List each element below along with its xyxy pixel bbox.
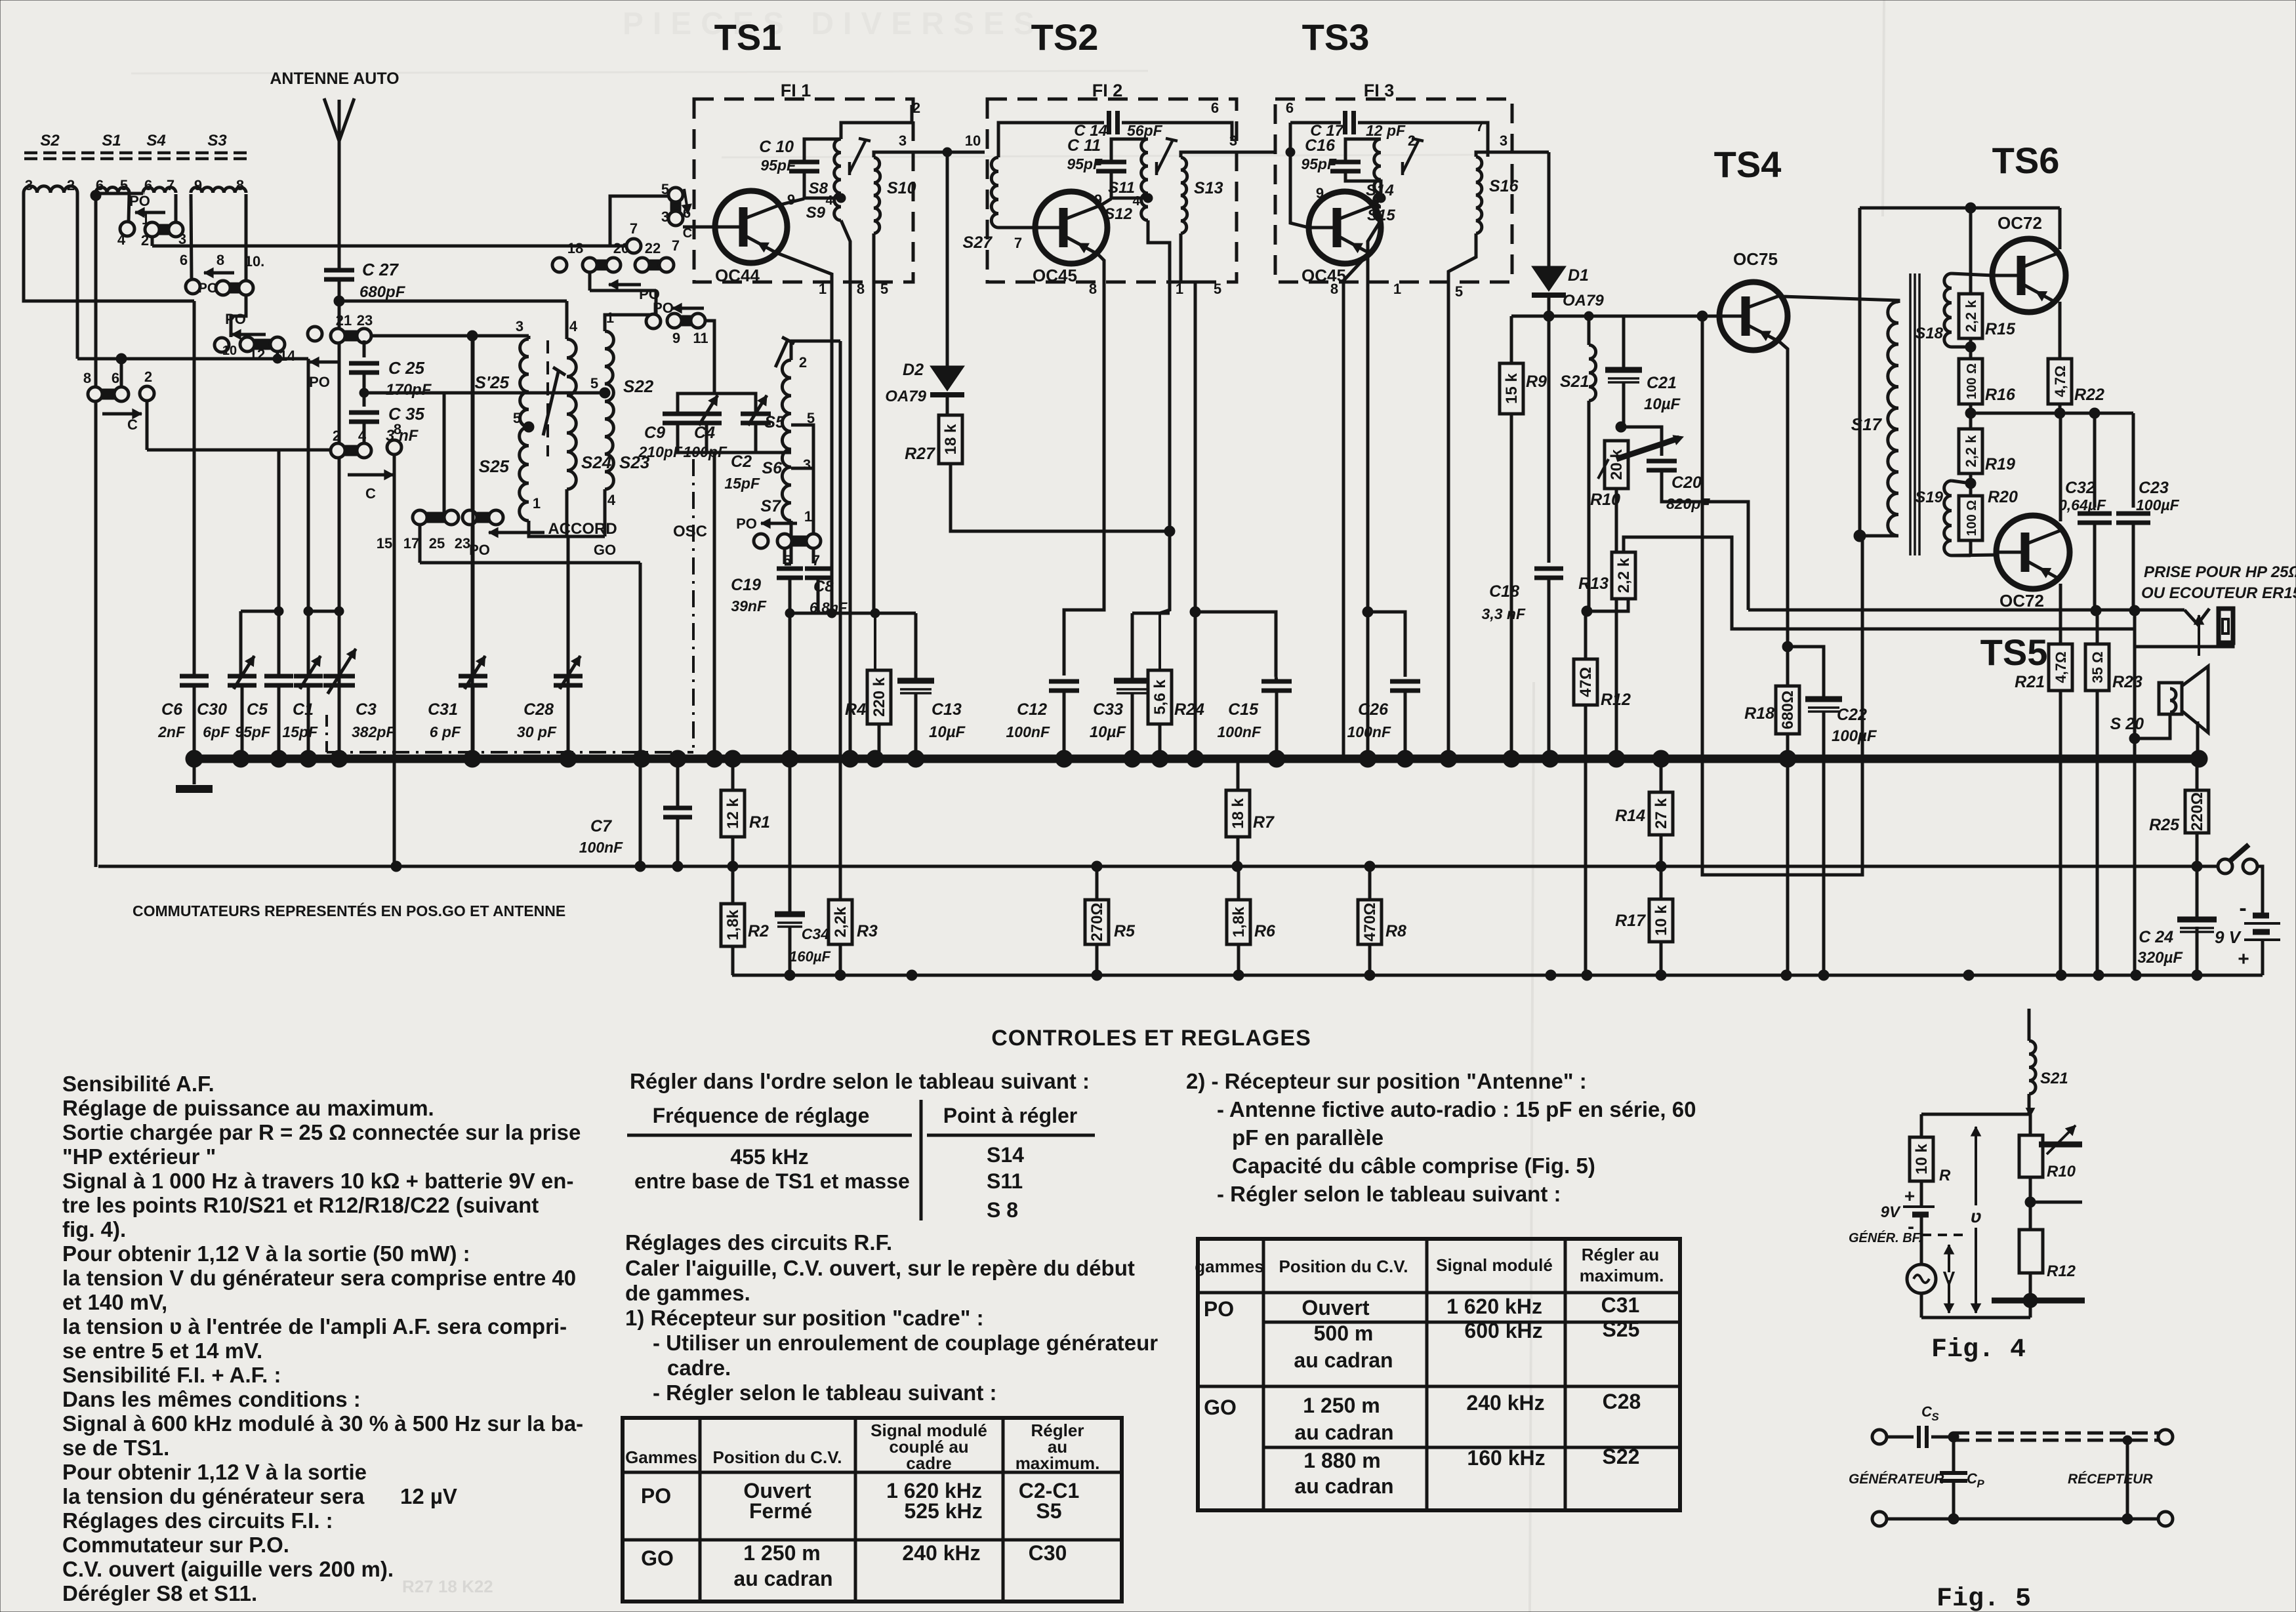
svg-text:R6: R6 — [1254, 922, 1276, 940]
wire S22 tap left — [444, 392, 605, 395]
pin 25 — [429, 535, 445, 552]
wire antenna to C27 node — [338, 280, 341, 301]
junction on ground bus — [232, 750, 249, 767]
svg-text:9: 9 — [194, 177, 202, 193]
label S21 fig4 — [2040, 1070, 2068, 1087]
wire pin8c down — [393, 454, 396, 866]
label COMMUTATEURS — [133, 902, 565, 919]
pin 14 — [279, 348, 296, 364]
label S27 — [963, 233, 993, 252]
label R10 fig4 — [2047, 1163, 2076, 1180]
wire C13 down — [914, 693, 918, 759]
pin 9 — [672, 330, 680, 346]
svg-text:Fréquence de réglage: Fréquence de réglage — [653, 1104, 870, 1127]
label 9V fig4 — [1881, 1203, 1901, 1221]
svg-text:TS5: TS5 — [1980, 632, 2048, 673]
svg-text:C15: C15 — [1228, 700, 1259, 719]
pin 6b — [112, 370, 119, 386]
svg-text:GÉNÉRATEUR: GÉNÉRATEUR — [1849, 1472, 1944, 1487]
label 9V — [2215, 927, 2242, 947]
svg-text:S22: S22 — [1603, 1445, 1640, 1468]
svg-text:C3: C3 — [356, 700, 377, 719]
svg-text:4: 4 — [569, 318, 578, 334]
svg-text:C16: C16 — [1305, 136, 1336, 155]
coil S8 S9 — [834, 139, 841, 220]
svg-text:Réglages des circuits R.F.: Réglages des circuits R.F. — [625, 1230, 892, 1255]
label TS4 — [1714, 144, 1782, 185]
resistor R21 — [2015, 644, 2072, 691]
node C32 top — [2089, 408, 2100, 418]
junction on ground bus — [1608, 750, 1625, 767]
junction on ground bus — [706, 750, 723, 767]
junction on bottom rail — [1818, 970, 1829, 980]
svg-text:Signal à 600 kHz modulé à 30 %: Signal à 600 kHz modulé à 30 % à 500 Hz … — [62, 1411, 583, 1436]
wire osc top link — [678, 393, 756, 414]
svg-text:ʋ: ʋ — [1971, 1206, 1982, 1226]
coil S2 — [24, 186, 77, 193]
label S2 — [40, 132, 60, 150]
wire switch1-3 down — [151, 237, 154, 246]
coil S3 — [191, 188, 246, 193]
pin 2 — [67, 177, 75, 193]
svg-text:OC45: OC45 — [1033, 266, 1077, 285]
junction on ground bus — [724, 750, 741, 767]
svg-text:9 V: 9 V — [2215, 927, 2242, 947]
svg-text:4: 4 — [1132, 194, 1140, 209]
node S1 S4 link — [91, 190, 143, 201]
svg-text:R12: R12 — [2047, 1262, 2076, 1280]
wire R10 node right — [1621, 427, 1662, 456]
svg-text:PO: PO — [736, 515, 757, 532]
node fig5 top — [1948, 1432, 1959, 1442]
node S25 tap — [523, 422, 534, 432]
svg-text:S2: S2 — [40, 132, 60, 150]
label S24 — [581, 453, 612, 472]
label Fig 4 — [1931, 1335, 2026, 1365]
svg-text:170pF: 170pF — [386, 381, 432, 399]
svg-text:2: 2 — [912, 100, 920, 116]
junction on ground bus — [867, 750, 884, 767]
junction on ground bus — [669, 750, 686, 767]
svg-text:C 24: C 24 — [2139, 928, 2173, 946]
junction on ground bus — [2190, 750, 2207, 767]
wire R23 down — [2096, 691, 2099, 975]
svg-text:TS4: TS4 — [1714, 144, 1782, 185]
node pin1 FI1 net — [827, 609, 836, 618]
svg-text:S1: S1 — [102, 132, 121, 150]
wire fi3 in riser — [1289, 123, 1292, 152]
wire C34 down — [789, 927, 792, 975]
arrow PO osc — [736, 515, 797, 532]
svg-text:500 m: 500 m — [1314, 1321, 1374, 1345]
switch 8-6 — [88, 387, 129, 401]
pin 3 — [25, 177, 33, 193]
capacitor C12 — [1006, 681, 1079, 740]
svg-text:C4: C4 — [694, 424, 715, 442]
arrow PO top — [135, 208, 165, 218]
pin 2b — [333, 428, 340, 444]
label ANTENNE AUTO — [270, 70, 399, 88]
label S3 — [207, 132, 227, 150]
svg-text:C 25: C 25 — [388, 358, 424, 378]
wire R9 down — [1510, 414, 1513, 759]
node S20 link — [2129, 733, 2140, 744]
wire TS3 emitter down — [1343, 252, 1370, 759]
svg-text:1 250 m: 1 250 m — [743, 1541, 820, 1565]
label RECEPTEUR — [2068, 1472, 2153, 1487]
wire S27 base — [998, 226, 1035, 230]
svg-text:S19: S19 — [1915, 489, 1943, 506]
svg-text:R5: R5 — [1114, 922, 1136, 940]
svg-text:Fig. 4: Fig. 4 — [1931, 1335, 2026, 1365]
svg-text:S5: S5 — [1036, 1499, 1061, 1523]
wire sw25 stub — [420, 525, 640, 563]
label S8 — [809, 180, 829, 197]
capacitor C3 variable — [323, 649, 396, 740]
wire C21 up — [1622, 316, 1626, 370]
svg-text:1: 1 — [819, 281, 827, 297]
svg-text:C31: C31 — [1601, 1293, 1640, 1317]
pin 9 fi3 — [1316, 185, 1324, 201]
svg-text:C23: C23 — [2139, 479, 2169, 497]
node fi3 in — [1286, 148, 1295, 157]
svg-text:8: 8 — [1330, 281, 1338, 297]
svg-text:Réglages des circuits F.I. :: Réglages des circuits F.I. : — [62, 1508, 333, 1533]
junction on ground bus — [633, 750, 650, 767]
label S12 — [1104, 205, 1132, 223]
wire C19 top — [789, 563, 792, 564]
svg-text:39nF: 39nF — [731, 597, 767, 615]
svg-text:8: 8 — [83, 370, 91, 386]
svg-text:P: P — [1977, 1478, 1984, 1490]
wire C15 link — [1195, 612, 1276, 677]
resistor R3 — [829, 900, 878, 944]
switch 1-3 — [145, 222, 183, 237]
wire S3 left leg — [191, 194, 192, 279]
junction on ground bus — [1440, 750, 1457, 767]
svg-text:3: 3 — [25, 177, 33, 193]
wire R2 up — [731, 866, 735, 904]
svg-text:5: 5 — [1214, 281, 1221, 297]
junction on bottom rail — [2192, 970, 2202, 980]
svg-text:5: 5 — [1455, 283, 1463, 300]
wire S22 top — [605, 291, 656, 331]
coil S'25 — [520, 339, 529, 427]
junction on ground bus — [1503, 750, 1520, 767]
pin 9 — [194, 177, 202, 193]
svg-text:270Ω: 270Ω — [1088, 902, 1106, 941]
svg-text:S4: S4 — [146, 132, 165, 150]
capacitor C34 pol — [775, 914, 831, 965]
label minus fig4 — [1908, 1216, 1914, 1238]
svg-text:CONTROLES ET REGLAGES: CONTROLES ET REGLAGES — [991, 1026, 1311, 1051]
arrow V fig4 — [1944, 1245, 1954, 1313]
pin 11 — [693, 330, 708, 346]
wire S12 bottom — [1148, 220, 1170, 613]
label OC72 bottom — [1999, 591, 2044, 611]
circle pin 10b — [215, 338, 237, 358]
transistor TS1 OC44 — [715, 191, 804, 263]
coil S18 — [1944, 273, 1952, 347]
wire fig4 top — [1921, 1094, 2035, 1116]
terminal fig5 right top — [2158, 1430, 2173, 1444]
resistor R27 — [905, 415, 962, 464]
svg-text:10 k: 10 k — [1913, 1143, 1931, 1174]
pin 5 osc — [807, 410, 815, 426]
svg-text:Régler au: Régler au — [1582, 1245, 1660, 1264]
junction on ground bus — [781, 750, 798, 767]
wire S18 top — [1952, 273, 1993, 275]
svg-text:4: 4 — [358, 428, 367, 444]
svg-text:C32: C32 — [2065, 479, 2095, 497]
junction on bottom rail — [1092, 970, 1102, 980]
label S6 — [762, 459, 783, 477]
pin 8 — [236, 177, 244, 193]
label TS3 — [1302, 16, 1370, 58]
label S7 — [760, 497, 781, 515]
wire C21 down — [1622, 382, 1626, 427]
svg-text:pF en parallèle: pF en parallèle — [1232, 1125, 1384, 1150]
resistor R8 — [1358, 900, 1406, 944]
pin 1 accord — [533, 495, 541, 512]
junction on bottom rail — [1364, 970, 1375, 980]
label FI2 — [1092, 81, 1123, 100]
svg-text:et 140 mV,: et 140 mV, — [62, 1290, 167, 1314]
svg-text:C34: C34 — [802, 925, 829, 942]
node TS4 base link — [1697, 311, 1708, 321]
wire C1 up — [307, 359, 310, 675]
wire sw ts1 left — [610, 196, 668, 246]
junction on ground bus — [270, 750, 287, 767]
svg-text:C31: C31 — [428, 700, 458, 719]
wire fig4 mid right — [2030, 1177, 2082, 1202]
wire Cp wires — [1952, 1437, 1956, 1519]
arrow PO 8 — [204, 268, 234, 278]
svg-text:160µF: 160µF — [789, 948, 830, 965]
pin 1 osc — [804, 508, 812, 525]
svg-text:9: 9 — [787, 191, 795, 208]
svg-text:C28: C28 — [523, 700, 554, 719]
ground bus (thick horizontal rail) — [194, 755, 2199, 763]
wire col 1089 — [713, 341, 716, 759]
wire S17 left — [1858, 208, 1862, 536]
svg-text:4: 4 — [117, 232, 126, 248]
svg-text:OC45: OC45 — [1302, 266, 1346, 285]
svg-text:0,64µF: 0,64µF — [2059, 496, 2106, 514]
svg-text:C.V. ouvert (aiguille vers 200: C.V. ouvert (aiguille vers 200 m). — [62, 1557, 394, 1581]
label plus — [2238, 948, 2249, 970]
wire accord chain down — [567, 536, 570, 759]
svg-text:6: 6 — [112, 370, 119, 386]
svg-text:S11: S11 — [987, 1169, 1023, 1193]
label PO top — [129, 193, 150, 209]
capacitor C23 — [2116, 479, 2180, 523]
wire C17 right — [1358, 123, 1488, 157]
wire C6 down — [193, 686, 196, 759]
switch 21-23 — [331, 329, 371, 343]
wire C11 bottom — [1111, 172, 1148, 198]
svg-text:1,8k: 1,8k — [1230, 906, 1248, 937]
wire C11 top — [1111, 139, 1148, 162]
svg-text:9V: 9V — [1881, 1203, 1901, 1221]
capacitor C14 — [1074, 111, 1162, 140]
label R12 fig4 — [2047, 1262, 2076, 1280]
adjust FI1 — [850, 138, 871, 175]
svg-text:R: R — [1939, 1167, 1951, 1184]
coil S1 — [96, 188, 129, 193]
pin 12 — [249, 346, 265, 363]
svg-text:100nF: 100nF — [579, 839, 623, 856]
chain line vertical C1 — [325, 715, 328, 752]
wire C10 bottom — [804, 172, 841, 198]
svg-text:PO: PO — [1204, 1297, 1234, 1321]
svg-text:2,2 k: 2,2 k — [1963, 435, 1979, 468]
wire speaker bottom — [2135, 714, 2170, 738]
capacitor C27 — [324, 260, 406, 301]
pin 8 fi3 — [1330, 281, 1338, 297]
node fig4 mid — [2025, 1197, 2036, 1207]
pin 5 fi3 — [1455, 283, 1463, 300]
wire C23 bottom — [2132, 523, 2135, 611]
svg-text:PRISE POUR HP 25Ω: PRISE POUR HP 25Ω — [2144, 563, 2296, 581]
svg-text:Position du C.V.: Position du C.V. — [713, 1447, 842, 1467]
wire pin2 stub — [841, 105, 912, 139]
wire R12 fig4 wires — [2029, 1202, 2032, 1318]
wire C25 node right — [364, 393, 444, 517]
terminal fig5 left top — [1872, 1430, 1887, 1444]
label OC72 top — [1998, 213, 2042, 233]
resistor R24 — [1148, 670, 1204, 724]
wire C10 top — [804, 139, 841, 162]
resistor R14 — [1615, 792, 1673, 835]
svg-text:5: 5 — [513, 410, 521, 426]
pin 3 accord — [516, 318, 523, 334]
wire S1 left leg — [94, 194, 98, 867]
svg-text:S: S — [1931, 1411, 1939, 1423]
wire C3 down — [338, 686, 341, 759]
wire C26 down — [1404, 691, 1407, 759]
transistor TS4 OC75 — [1719, 282, 1788, 350]
svg-text:R20: R20 — [1988, 488, 2018, 506]
svg-text:R9: R9 — [1526, 373, 1547, 391]
wire C24 up — [2196, 866, 2199, 919]
wire C5 up — [277, 450, 281, 675]
node R4 net — [871, 609, 880, 618]
pin 2 osc — [799, 354, 807, 371]
node S21 top — [1584, 312, 1593, 321]
svg-text:4,7Ω: 4,7Ω — [2052, 365, 2068, 397]
svg-text:Pour obtenir 1,12 V à la sorti: Pour obtenir 1,12 V à la sortie (50 mW) … — [62, 1241, 470, 1266]
pin 3 fi3 — [1500, 132, 1507, 149]
wire y547 — [77, 357, 308, 361]
coil S4 — [143, 188, 176, 193]
label GO accord — [594, 542, 616, 558]
wire S25 bottom — [529, 521, 605, 536]
svg-text:C2: C2 — [731, 453, 752, 471]
svg-text:Capacité du câble comprise (Fi: Capacité du câble comprise (Fig. 5) — [1232, 1154, 1595, 1178]
battery mid bar — [2253, 929, 2270, 935]
svg-text:Signal à 1 000 Hz à travers 10: Signal à 1 000 Hz à travers 10 kΩ + batt… — [62, 1169, 573, 1193]
svg-text:R16: R16 — [1985, 386, 2016, 404]
resistor R10 pot — [1590, 441, 1628, 509]
svg-text:2: 2 — [333, 428, 340, 444]
node S22 tap — [600, 388, 610, 398]
wire S2 left leg — [24, 193, 194, 301]
wire pin2c down — [147, 401, 332, 450]
svg-text:470Ω: 470Ω — [1361, 902, 1379, 941]
svg-text:9: 9 — [672, 330, 680, 346]
resistor R5 — [1085, 900, 1136, 944]
svg-text:23: 23 — [357, 312, 373, 329]
wire sw57 left down — [785, 548, 791, 564]
svg-text:10: 10 — [222, 344, 237, 358]
wire R27 down — [951, 464, 1175, 536]
junction on bottom rail — [1656, 970, 1666, 980]
wire jack sleeve — [2135, 641, 2233, 647]
coil S21 — [1589, 345, 1596, 401]
svg-text:GO: GO — [641, 1546, 674, 1570]
svg-text:- Régler selon le tableau suiv: - Régler selon le tableau suivant : — [1217, 1182, 1561, 1206]
wire R18 up — [1786, 647, 1790, 686]
svg-text:S18: S18 — [1915, 325, 1943, 342]
svg-text:R18: R18 — [1744, 704, 1774, 723]
wire S9 bottom — [841, 220, 850, 759]
wire bottom battery rail — [732, 974, 2263, 977]
svg-text:- Utiliser un enroulement de c: - Utiliser un enroulement de couplage gé… — [653, 1331, 1158, 1355]
svg-text:12: 12 — [249, 346, 265, 363]
svg-text:3: 3 — [803, 456, 811, 473]
pin 5 S22 — [590, 375, 598, 392]
pin 4 s9 — [825, 193, 833, 208]
wire R21 down — [2059, 691, 2062, 975]
wire TS4 base — [1702, 315, 1719, 318]
svg-text:OSC: OSC — [673, 523, 707, 540]
capacitor C9 — [638, 414, 693, 460]
pin 1 fi1 — [819, 281, 827, 297]
svg-text:2: 2 — [799, 354, 807, 371]
label S1 — [102, 132, 121, 150]
coil S14 S15 — [1374, 139, 1381, 220]
circle sw57 — [754, 534, 768, 548]
switch 22 — [635, 258, 674, 272]
label GENERATEUR — [1849, 1472, 1944, 1487]
wire S7 bottom — [790, 521, 793, 564]
svg-text:8: 8 — [857, 281, 865, 297]
svg-text:S10: S10 — [887, 179, 916, 197]
pin 5 ts1 — [661, 181, 669, 197]
resistor R4 — [845, 670, 891, 724]
svg-text:Dans les mêmes conditions :: Dans les mêmes conditions : — [62, 1387, 361, 1411]
resistor R15 — [1959, 294, 2016, 338]
wire S'25 top — [371, 336, 529, 339]
wire batt to gen — [1920, 1215, 1923, 1266]
svg-text:35 Ω: 35 Ω — [2089, 651, 2106, 683]
svg-text:S11: S11 — [1108, 179, 1135, 197]
junction on bottom rail — [1546, 970, 1556, 980]
wire R24 down — [1158, 724, 1162, 759]
svg-text:Position du C.V.: Position du C.V. — [1279, 1257, 1408, 1276]
svg-text:3: 3 — [516, 318, 523, 334]
wire R8 down — [1368, 944, 1372, 975]
svg-text:TS3: TS3 — [1302, 16, 1370, 58]
pin 2 fi3 — [1408, 132, 1416, 149]
svg-text:6: 6 — [180, 252, 188, 268]
wire R7 up — [1237, 759, 1240, 790]
svg-text:2) - Récepteur sur position "A: 2) - Récepteur sur position "Antenne" : — [1186, 1069, 1587, 1093]
coil S27 — [991, 157, 998, 228]
junction on ground bus — [1652, 750, 1670, 767]
switch 18-20 — [583, 258, 621, 272]
